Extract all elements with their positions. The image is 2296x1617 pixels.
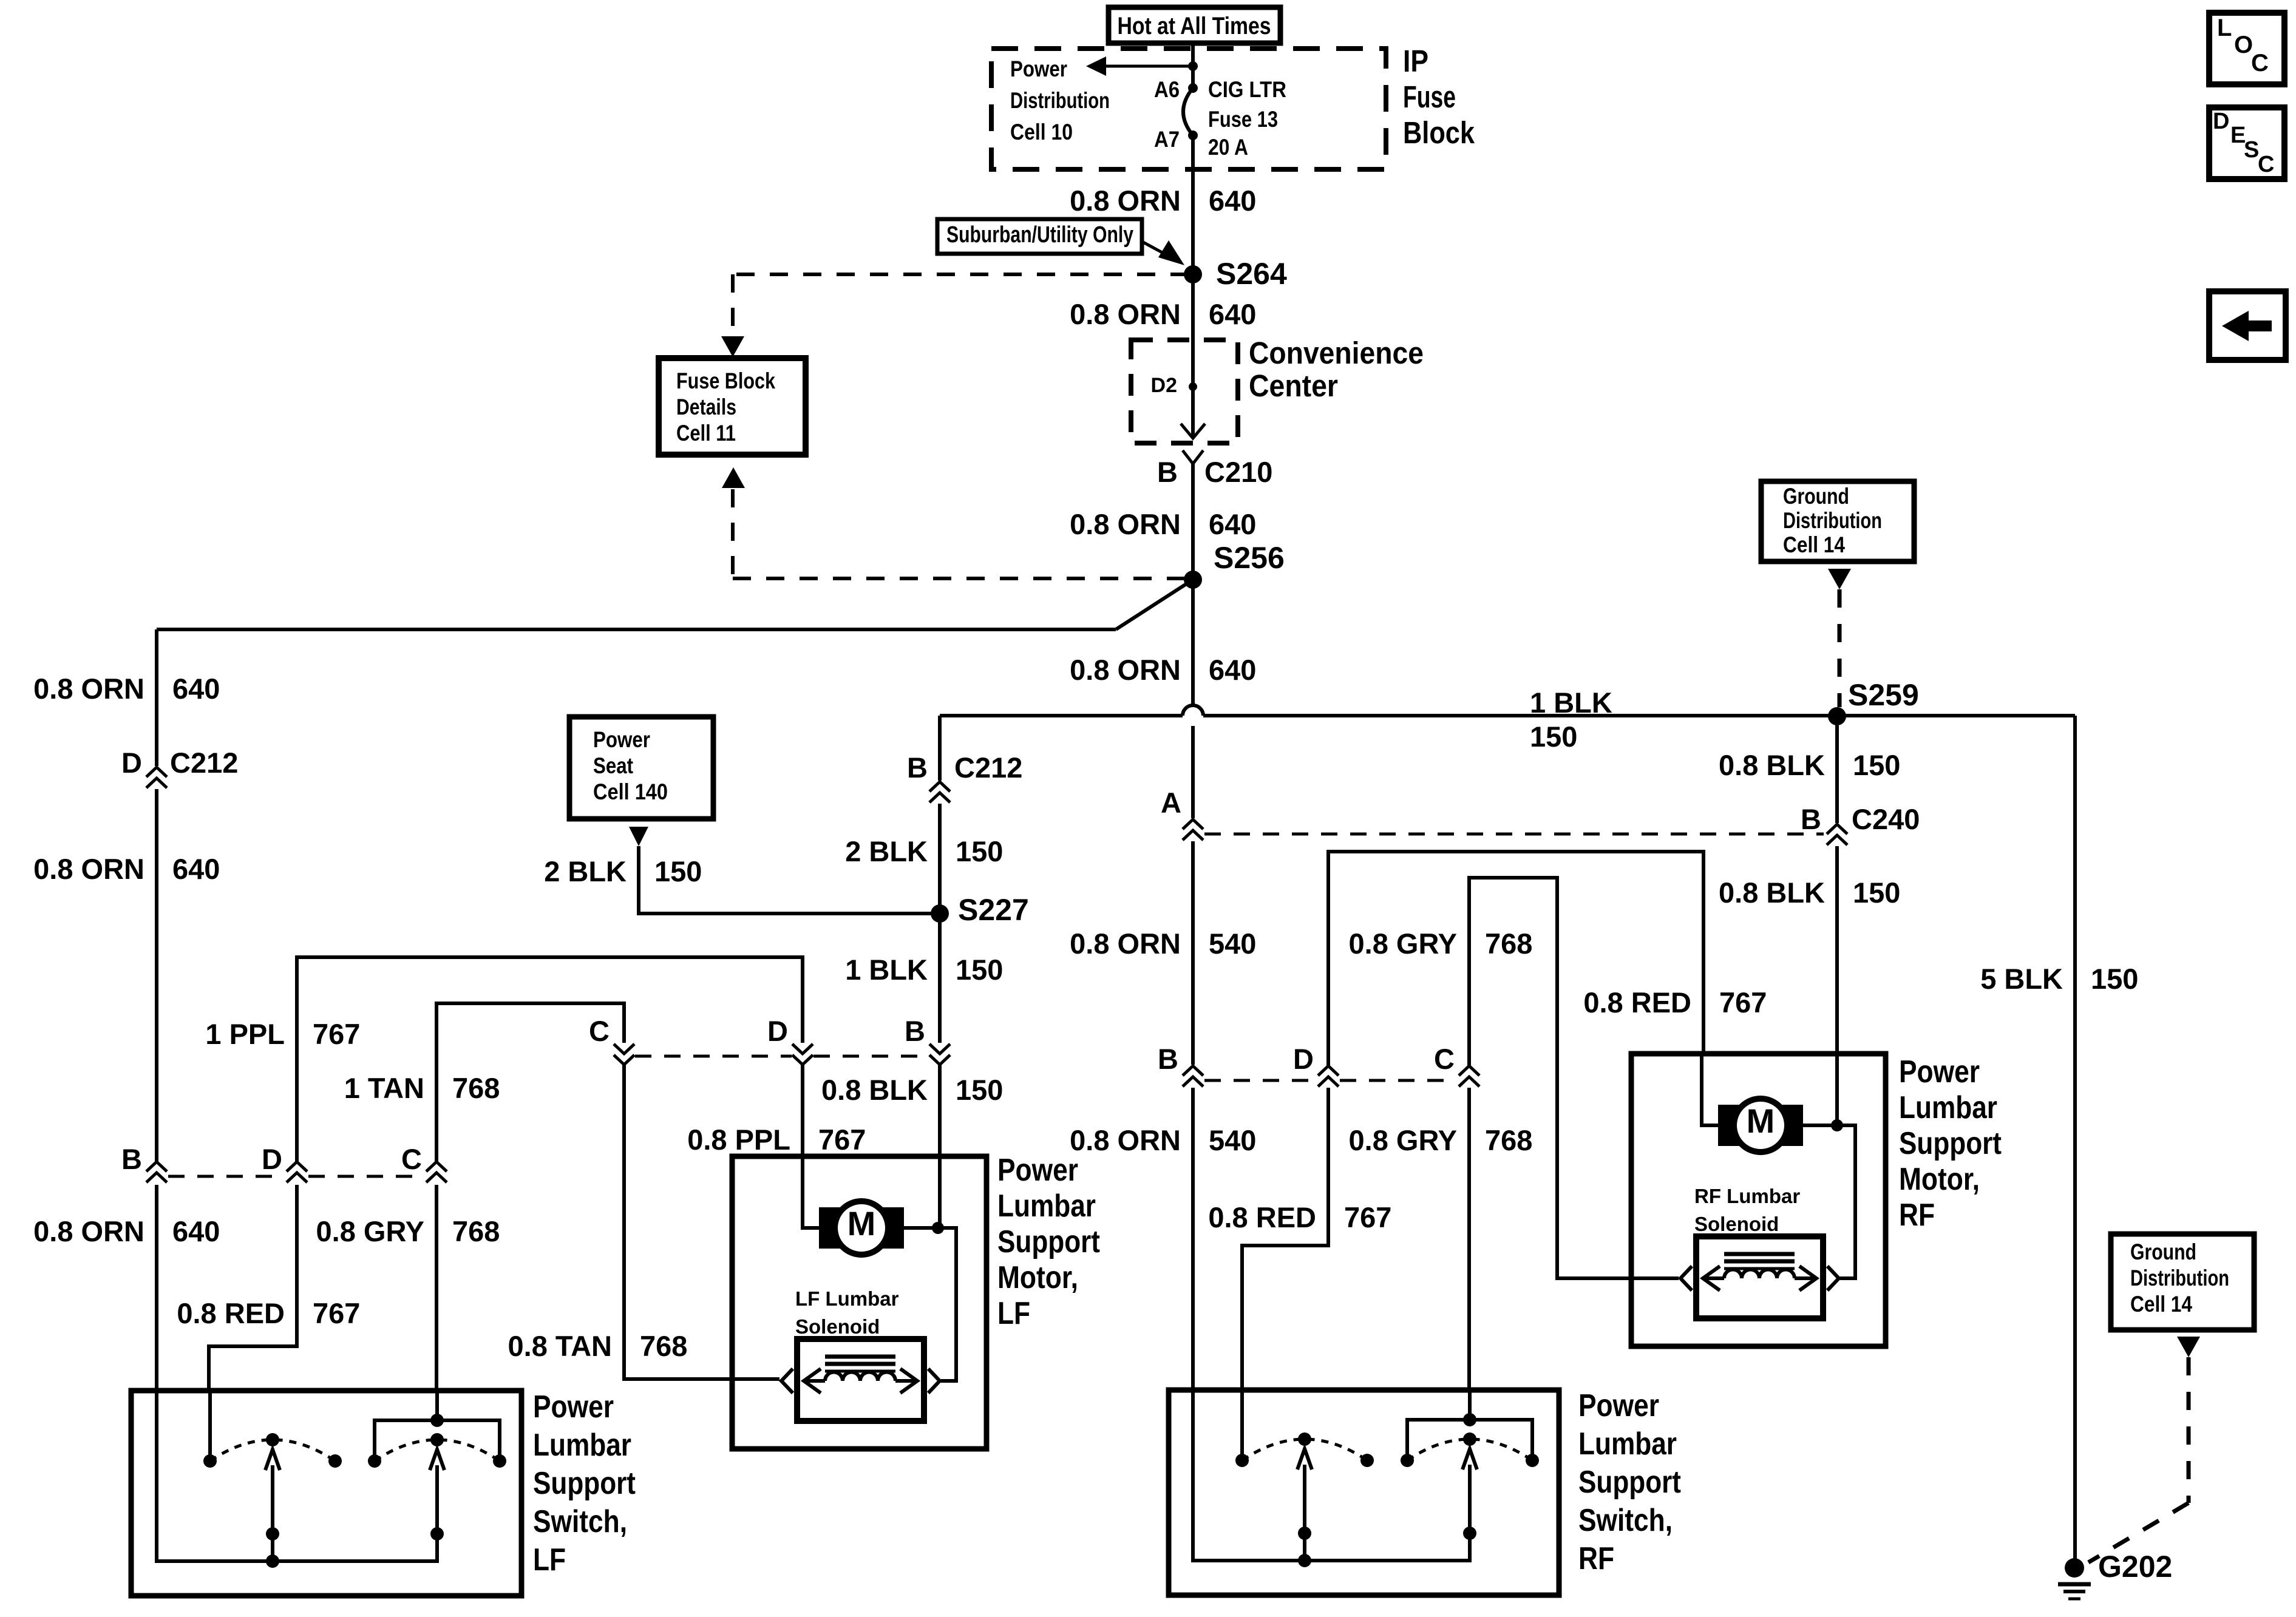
svg-text:Cell 14: Cell 14 bbox=[2130, 1292, 2192, 1317]
svg-text:640: 640 bbox=[172, 1215, 220, 1247]
svg-text:IP: IP bbox=[1403, 44, 1428, 78]
svg-text:Solenoid: Solenoid bbox=[1694, 1213, 1779, 1235]
wire: long horizontal to left drop bbox=[157, 628, 1116, 631]
left switch dashed throw bbox=[210, 1440, 335, 1461]
wire: left drop 0.8 ORN 640 bbox=[155, 629, 158, 766]
right switch dashed throw bbox=[1407, 1439, 1532, 1460]
wire: 0.8 RED 767 from C-row D to RF motor bbox=[1328, 852, 1703, 1066]
svg-text:640: 640 bbox=[1209, 185, 1256, 217]
svg-text:767: 767 bbox=[1719, 986, 1767, 1019]
svg-text:B: B bbox=[1157, 456, 1178, 488]
solenoid L coil RF bbox=[1696, 1236, 1823, 1318]
svg-text:Switch,: Switch, bbox=[533, 1504, 627, 1539]
wire: 5 BLK 150 to G202 bbox=[2073, 716, 2077, 1568]
box: Power Lumbar Support Switch, RF bbox=[1169, 1390, 1559, 1595]
svg-text:Power: Power bbox=[1578, 1388, 1659, 1423]
svg-text:0.8 TAN: 0.8 TAN bbox=[508, 1330, 613, 1362]
svg-text:0.8 ORN: 0.8 ORN bbox=[33, 1215, 144, 1247]
dashed link S264 to Fuse Block Details bbox=[733, 273, 1189, 276]
svg-text:Center: Center bbox=[1249, 368, 1338, 403]
svg-text:0.8 ORN: 0.8 ORN bbox=[33, 853, 144, 885]
motor M LF bbox=[819, 1207, 904, 1249]
box: Ground Distribution Cell 14 (lower) bbox=[2111, 1234, 2254, 1330]
svg-text:640: 640 bbox=[1209, 654, 1256, 686]
wire: riser from S227 to bus bbox=[938, 716, 942, 781]
svg-text:Switch,: Switch, bbox=[1578, 1503, 1673, 1538]
wire: feed rail inside switch bbox=[157, 1391, 437, 1561]
svg-text:768: 768 bbox=[452, 1072, 500, 1104]
svg-text:Solenoid: Solenoid bbox=[795, 1315, 880, 1338]
solenoid terminal chevrons bbox=[1680, 1266, 1692, 1290]
svg-text:Power: Power bbox=[1010, 56, 1067, 81]
IP Fuse Block dashed box bbox=[991, 49, 1386, 169]
svg-text:5 BLK: 5 BLK bbox=[1980, 963, 2063, 995]
svg-text:D: D bbox=[767, 1015, 788, 1047]
box: Fuse Block Details Cell 11 bbox=[659, 358, 806, 455]
svg-text:2 BLK: 2 BLK bbox=[845, 835, 928, 867]
svg-text:LF Lumbar: LF Lumbar bbox=[795, 1287, 899, 1310]
svg-text:Ground: Ground bbox=[2130, 1239, 2196, 1264]
svg-text:0.8 ORN: 0.8 ORN bbox=[33, 673, 144, 705]
svg-text:2 BLK: 2 BLK bbox=[544, 855, 627, 887]
svg-text:Suburban/Utility Only: Suburban/Utility Only bbox=[946, 222, 1133, 248]
wire: left brush feed bbox=[803, 1156, 819, 1228]
solenoid L coil LF bbox=[797, 1339, 924, 1421]
node: motor/solenoid junction bbox=[1831, 1119, 1843, 1131]
Convenience Center dashed box bbox=[1131, 340, 1238, 443]
svg-text:150: 150 bbox=[956, 1074, 1003, 1106]
splice S256 bbox=[1184, 571, 1202, 589]
wire: feed rail inside switch bbox=[1193, 1390, 1470, 1561]
svg-text:S227: S227 bbox=[958, 893, 1029, 927]
svg-text:Power: Power bbox=[997, 1153, 1078, 1188]
wire: loop to solenoid bbox=[938, 1228, 956, 1381]
svg-text:768: 768 bbox=[452, 1215, 500, 1247]
pin D2 bbox=[1189, 382, 1197, 391]
svg-text:D: D bbox=[121, 747, 142, 779]
svg-text:Cell 10: Cell 10 bbox=[1010, 120, 1073, 144]
svg-text:150: 150 bbox=[956, 954, 1003, 986]
svg-text:0.8 GRY: 0.8 GRY bbox=[316, 1215, 425, 1247]
box: Power Lumbar Support Switch, LF bbox=[131, 1391, 521, 1596]
svg-text:0.8 PPL: 0.8 PPL bbox=[687, 1124, 790, 1156]
svg-text:0.8 GRY: 0.8 GRY bbox=[1349, 927, 1458, 960]
svg-text:150: 150 bbox=[1853, 876, 1900, 909]
svg-text:767: 767 bbox=[818, 1124, 866, 1156]
dashed ground link to G202 bbox=[2177, 1337, 2200, 1357]
svg-text:767: 767 bbox=[1344, 1201, 1391, 1233]
flag box: Hot at All Times bbox=[1109, 7, 1280, 43]
wire: 0.8 RED 767 into LF switch bbox=[209, 1185, 297, 1391]
right wiper arrow bbox=[435, 1465, 439, 1534]
wire: 1 PPL 767 from C212-D to LF motor bbox=[297, 957, 803, 1163]
wire: 0.8 BLK 150 from S259 down bbox=[1835, 716, 1839, 823]
ground G202 bbox=[2065, 1558, 2084, 1578]
arrowhead into convenience center bbox=[1181, 424, 1205, 438]
right switch contacts bbox=[368, 1454, 381, 1468]
svg-text:0.8 RED: 0.8 RED bbox=[1208, 1201, 1316, 1233]
fuse F13 CIG LTR 20A bbox=[1183, 88, 1193, 135]
wire: 0.8 ORN 540 into RF switch bbox=[1191, 1088, 1195, 1390]
svg-text:Support: Support bbox=[1899, 1126, 2002, 1161]
svg-text:C: C bbox=[589, 1015, 610, 1047]
svg-text:Hot at All Times: Hot at All Times bbox=[1118, 13, 1271, 39]
svg-text:Cell 140: Cell 140 bbox=[593, 779, 668, 804]
svg-text:C: C bbox=[2251, 50, 2269, 76]
svg-text:1 BLK: 1 BLK bbox=[845, 954, 928, 986]
svg-text:0.8 GRY: 0.8 GRY bbox=[1349, 1124, 1458, 1156]
svg-text:Motor,: Motor, bbox=[1899, 1162, 1980, 1197]
svg-text:C: C bbox=[401, 1143, 422, 1175]
right switch dashed throw bbox=[375, 1440, 500, 1461]
svg-text:D: D bbox=[2213, 109, 2229, 134]
wire: left brush feed bbox=[1702, 1054, 1718, 1125]
wire: loop to solenoid bbox=[1837, 1125, 1855, 1278]
svg-text:RF: RF bbox=[1578, 1541, 1614, 1576]
svg-text:S259: S259 bbox=[1848, 678, 1919, 712]
motor M RF bbox=[1718, 1105, 1803, 1146]
svg-text:Distribution: Distribution bbox=[1010, 88, 1110, 113]
dashed connector line C-D bbox=[635, 1055, 792, 1058]
svg-text:Motor,: Motor, bbox=[997, 1260, 1078, 1295]
solenoid terminal chevrons bbox=[781, 1369, 793, 1393]
svg-text:D: D bbox=[1293, 1043, 1314, 1075]
svg-text:150: 150 bbox=[1530, 720, 1577, 753]
left switch contacts bbox=[1235, 1454, 1249, 1467]
svg-text:640: 640 bbox=[172, 853, 220, 885]
svg-text:B: B bbox=[1158, 1043, 1178, 1075]
svg-text:M: M bbox=[1747, 1102, 1775, 1140]
svg-text:Distribution: Distribution bbox=[1783, 508, 1882, 533]
svg-text:Distribution: Distribution bbox=[2130, 1266, 2229, 1290]
svg-text:540: 540 bbox=[1209, 927, 1256, 960]
svg-text:1 PPL: 1 PPL bbox=[205, 1018, 285, 1050]
svg-text:1 BLK: 1 BLK bbox=[1530, 686, 1612, 719]
svg-text:0.8 ORN: 0.8 ORN bbox=[1070, 927, 1181, 960]
svg-text:Ground: Ground bbox=[1783, 484, 1849, 509]
wire through convenience center bbox=[1191, 340, 1195, 425]
flag box: Suburban/Utility Only bbox=[937, 219, 1142, 254]
svg-text:0.8 BLK: 0.8 BLK bbox=[1719, 749, 1825, 781]
svg-text:Support: Support bbox=[1578, 1465, 1681, 1500]
svg-text:S: S bbox=[2244, 137, 2259, 163]
svg-text:150: 150 bbox=[654, 855, 702, 887]
wire: 0.8 ORN into LF switch bbox=[155, 1185, 158, 1391]
wire: 0.8 GRY 768 into LF switch bbox=[435, 1185, 438, 1391]
svg-text:B: B bbox=[1801, 803, 1821, 835]
wire: right brush to junction bbox=[904, 1226, 938, 1230]
wire: 0.8 ORN below S264 bbox=[1191, 274, 1195, 340]
node: junction to Power Distribution bbox=[1188, 61, 1198, 71]
svg-text:0.8 BLK: 0.8 BLK bbox=[1719, 876, 1825, 909]
svg-text:C212: C212 bbox=[170, 747, 238, 779]
svg-text:C: C bbox=[1434, 1043, 1455, 1075]
wire: 1 BLK 150 ground bus bbox=[940, 714, 1183, 717]
left switch contacts bbox=[203, 1454, 217, 1468]
wire: right brush to junction bbox=[1803, 1124, 1837, 1127]
svg-text:Details: Details bbox=[676, 395, 736, 419]
wire: 0.8 RED 767 into RF switch bbox=[1242, 1088, 1328, 1390]
wire: battery feed into fuse block bbox=[1191, 43, 1195, 88]
left wiper arrow bbox=[271, 1465, 274, 1561]
svg-text:RF: RF bbox=[1899, 1198, 1935, 1233]
svg-text:A7: A7 bbox=[1154, 127, 1180, 152]
svg-text:B: B bbox=[907, 751, 928, 784]
svg-text:0.8 RED: 0.8 RED bbox=[177, 1297, 285, 1329]
svg-text:L: L bbox=[2217, 15, 2232, 41]
svg-text:0.8 RED: 0.8 RED bbox=[1583, 986, 1691, 1019]
svg-text:Lumbar: Lumbar bbox=[533, 1428, 631, 1463]
right switch feed bracket bbox=[1407, 1420, 1532, 1460]
svg-text:Fuse Block: Fuse Block bbox=[676, 368, 775, 393]
svg-text:C: C bbox=[2258, 152, 2274, 177]
wire: 1 TAN 768 from C212-C to LF solenoid drop bbox=[436, 1003, 624, 1163]
wire: 0.8 ORN 640 below S256 bbox=[1191, 580, 1195, 705]
left wiper arrow bbox=[1303, 1465, 1306, 1561]
svg-text:D2: D2 bbox=[1151, 374, 1177, 397]
svg-text:Support: Support bbox=[533, 1466, 636, 1501]
svg-text:150: 150 bbox=[1853, 749, 1900, 781]
wire hop over ground line bbox=[1183, 705, 1203, 716]
connector C210 pin B bbox=[1183, 450, 1203, 464]
DESC legend box bbox=[2209, 107, 2284, 179]
box: Ground Distribution Cell 14 (upper) bbox=[1761, 481, 1914, 561]
wire: diagonal from S256 bbox=[1116, 580, 1193, 629]
wire: 0.8 ORN 540 to RF switch bbox=[1191, 841, 1195, 1065]
svg-text:767: 767 bbox=[313, 1297, 360, 1329]
dashed connector line D-B bbox=[813, 1055, 929, 1058]
svg-text:D: D bbox=[262, 1143, 282, 1175]
wire: 0.8 GRY 768 from C-row C to RF solenoid bbox=[1469, 878, 1679, 1278]
svg-text:20 A: 20 A bbox=[1208, 135, 1248, 160]
dashed link Fuse Block Details to S256 bbox=[722, 467, 745, 488]
svg-text:C240: C240 bbox=[1852, 803, 1920, 835]
svg-text:0.8 ORN: 0.8 ORN bbox=[1070, 654, 1181, 686]
svg-text:Lumbar: Lumbar bbox=[1899, 1090, 1997, 1125]
wire: fuse output down bbox=[1191, 135, 1195, 274]
svg-text:768: 768 bbox=[640, 1330, 687, 1362]
dashed line D-C bbox=[308, 1175, 422, 1178]
svg-text:Convenience: Convenience bbox=[1249, 336, 1424, 370]
svg-text:G202: G202 bbox=[2098, 1550, 2172, 1584]
node: motor/solenoid junction bbox=[932, 1222, 944, 1234]
svg-text:0.8 BLK: 0.8 BLK bbox=[821, 1074, 928, 1106]
box: Power Lumbar Support Motor, RF bbox=[1631, 1054, 1886, 1346]
svg-text:0.8 ORN: 0.8 ORN bbox=[1070, 508, 1181, 540]
splice S264 bbox=[1184, 265, 1202, 283]
svg-text:S264: S264 bbox=[1216, 257, 1287, 291]
svg-text:B: B bbox=[121, 1143, 142, 1175]
back-arrow legend box bbox=[2209, 291, 2286, 360]
left switch dashed throw bbox=[1242, 1439, 1367, 1460]
svg-text:B: B bbox=[905, 1015, 925, 1047]
wire: 0.8 BLK 150 into LF motor bbox=[938, 1065, 942, 1228]
right switch feed bracket bbox=[375, 1420, 500, 1461]
svg-text:Lumbar: Lumbar bbox=[997, 1188, 1096, 1224]
solenoid travel arrows bbox=[806, 1379, 825, 1383]
svg-text:C212: C212 bbox=[954, 751, 1022, 784]
svg-text:LF: LF bbox=[533, 1542, 566, 1578]
svg-text:O: O bbox=[2234, 32, 2253, 58]
svg-text:Lumbar: Lumbar bbox=[1578, 1426, 1677, 1462]
svg-text:Cell 14: Cell 14 bbox=[1783, 532, 1845, 557]
svg-text:0.8 ORN: 0.8 ORN bbox=[1070, 185, 1181, 217]
svg-text:Block: Block bbox=[1403, 115, 1475, 150]
svg-text:A: A bbox=[1161, 787, 1181, 819]
svg-text:768: 768 bbox=[1485, 927, 1532, 960]
svg-text:Power: Power bbox=[1899, 1054, 1980, 1090]
svg-text:Power: Power bbox=[593, 727, 650, 752]
wire: 0.8 GRY 768 into RF switch bbox=[1467, 1088, 1471, 1390]
solenoid travel arrows bbox=[1705, 1276, 1724, 1280]
svg-text:Cell 11: Cell 11 bbox=[676, 421, 736, 446]
svg-text:640: 640 bbox=[1209, 508, 1256, 540]
svg-text:CIG LTR: CIG LTR bbox=[1208, 77, 1286, 102]
svg-text:S256: S256 bbox=[1214, 541, 1285, 575]
svg-text:767: 767 bbox=[313, 1018, 360, 1050]
wire stubs into switch bbox=[1240, 1390, 1244, 1460]
arrow from flag to S264 bbox=[1143, 242, 1171, 257]
splice S259 bbox=[1828, 707, 1846, 725]
LOC legend box bbox=[2209, 13, 2284, 84]
box: Power Lumbar Support Motor, LF bbox=[732, 1156, 987, 1449]
svg-text:Support: Support bbox=[997, 1224, 1100, 1259]
right switch contacts bbox=[1401, 1454, 1414, 1467]
wire: 0.8 PPL 767 into LF motor bbox=[801, 1065, 804, 1228]
svg-text:Fuse: Fuse bbox=[1403, 80, 1456, 114]
dashed line D-C bbox=[1340, 1079, 1455, 1082]
svg-text:A6: A6 bbox=[1154, 77, 1180, 102]
svg-text:640: 640 bbox=[172, 673, 220, 705]
dashed connector line A to B C240 bbox=[1204, 833, 1824, 836]
wire: arrow to Power Distribution bbox=[1105, 65, 1193, 68]
wire: 2 BLK 150 from power seat to S227 bbox=[639, 846, 940, 914]
svg-text:LF: LF bbox=[997, 1296, 1030, 1331]
box: Power Seat Cell 140 bbox=[569, 717, 713, 819]
svg-text:540: 540 bbox=[1209, 1124, 1256, 1156]
connector C212 pin D (left) bbox=[146, 767, 167, 777]
svg-text:0.8 ORN: 0.8 ORN bbox=[1070, 298, 1181, 330]
svg-text:768: 768 bbox=[1485, 1124, 1532, 1156]
svg-text:1 TAN: 1 TAN bbox=[344, 1072, 424, 1104]
svg-text:0.8 ORN: 0.8 ORN bbox=[1070, 1124, 1181, 1156]
svg-text:RF Lumbar: RF Lumbar bbox=[1694, 1185, 1800, 1207]
wire stubs into switch bbox=[208, 1391, 212, 1461]
wire: 0.8 TAN 768 into LF solenoid bbox=[624, 1065, 779, 1379]
splice S227 bbox=[931, 904, 949, 923]
svg-text:Power: Power bbox=[533, 1389, 614, 1425]
svg-text:Fuse 13: Fuse 13 bbox=[1208, 107, 1278, 132]
svg-text:150: 150 bbox=[956, 835, 1003, 867]
svg-text:M: M bbox=[847, 1204, 876, 1242]
dashed ground link to S259 bbox=[1828, 569, 1851, 589]
dashed line B-D bbox=[168, 1175, 282, 1178]
svg-text:150: 150 bbox=[2091, 963, 2138, 995]
svg-text:Seat: Seat bbox=[593, 753, 633, 778]
right wiper arrow bbox=[1468, 1465, 1472, 1533]
svg-text:640: 640 bbox=[1209, 298, 1256, 330]
dashed line B-D bbox=[1204, 1079, 1314, 1082]
arrow from Power Seat box bbox=[629, 827, 648, 846]
svg-text:C210: C210 bbox=[1204, 456, 1272, 488]
